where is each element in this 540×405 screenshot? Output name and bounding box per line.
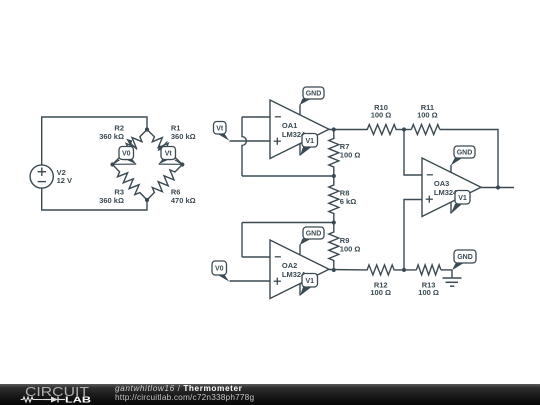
svg-text:V0: V0 — [215, 266, 224, 273]
wire V0 to OA2 non-inverting input — [230, 280, 271, 282]
wire R10 to R11 junction — [397, 129, 412, 131]
svg-text:100 Ω: 100 Ω — [370, 288, 391, 297]
resistor R9 100 ohm — [329, 223, 361, 271]
wire OA2 feedback vertical — [241, 223, 243, 258]
node flag V0 (OA2 input) — [212, 261, 229, 282]
svg-text:OA1: OA1 — [282, 121, 297, 130]
wire OA3 output — [480, 187, 514, 189]
wire OA1 inverting input — [242, 116, 270, 118]
wire V2 bottom to bridge bottom — [42, 188, 147, 210]
OA3 power stub top — [450, 165, 452, 173]
resistor R11 100 ohm (feedback) — [411, 103, 440, 135]
junction R12/R13 — [402, 268, 406, 272]
voltage source V2 — [30, 165, 72, 188]
junction R10/R11 — [402, 127, 406, 131]
svg-text:OA2: OA2 — [282, 261, 297, 270]
variable arrow on R2 — [126, 139, 137, 150]
svg-text:V0: V0 — [122, 151, 131, 158]
resistor R7 100 ohm — [329, 130, 361, 177]
node flag Vt (OA1 input) — [214, 122, 230, 141]
node flag Vt (bridge) — [158, 147, 182, 165]
V1 flag at OA2 — [300, 274, 318, 296]
op-amp OA3 LM324 — [422, 158, 481, 217]
svg-text:100 Ω: 100 Ω — [340, 245, 361, 254]
resistor R12 100 ohm — [367, 265, 394, 297]
junction OA3 output — [496, 185, 500, 189]
junction bridge top — [145, 127, 149, 131]
svg-text:100 Ω: 100 Ω — [371, 111, 392, 120]
footer bar — [0, 384, 540, 405]
logo diode — [51, 397, 58, 403]
junction R7/R8 feedback — [332, 174, 336, 178]
wire Vt to OA1 non-inverting input — [230, 140, 271, 142]
svg-text:V1: V1 — [458, 195, 467, 202]
svg-text:470 kΩ: 470 kΩ — [171, 196, 196, 205]
wire OA3 inverting input from R10/R11 junction — [404, 130, 422, 176]
resistor R3 360k (bottom-left bridge arm) — [99, 165, 147, 206]
node flag V0 (bridge) — [113, 147, 137, 165]
junction bridge right (node Vt) — [180, 162, 184, 166]
wire V2 top to bridge top — [42, 117, 147, 165]
svg-text:GND: GND — [306, 91, 322, 98]
resistor R6 470k (bottom-right bridge arm) — [147, 165, 196, 206]
svg-text:V1: V1 — [305, 278, 314, 285]
V1 flag at OA1 — [300, 134, 318, 156]
CircuitLab logo — [0, 384, 110, 405]
variable arrow on R1 — [158, 142, 168, 152]
OA2 power stub bottom — [299, 284, 301, 296]
resistor R1 360k (top-right bridge arm) — [147, 124, 196, 165]
wire OA2 inverting input — [242, 256, 270, 258]
wire R13 to ground — [441, 269, 452, 271]
op-amp OA1 LM324 — [270, 100, 329, 159]
svg-text:LAB: LAB — [65, 394, 91, 404]
GND flag at OA1 — [300, 87, 324, 105]
svg-text:GND: GND — [306, 231, 322, 238]
svg-text:OA3: OA3 — [434, 179, 449, 188]
svg-text:100 Ω: 100 Ω — [417, 111, 438, 120]
wire R11 to OA3 output — [440, 130, 498, 188]
V1 flag at OA3 — [451, 191, 470, 215]
wire OA1 feedback to R7/R8 junction — [242, 175, 334, 177]
svg-text:R1: R1 — [171, 124, 181, 133]
svg-text:100 Ω: 100 Ω — [418, 288, 439, 297]
svg-text:Vt: Vt — [216, 125, 224, 132]
GND flag at OA2 — [300, 227, 324, 245]
logo resistor — [21, 397, 43, 402]
svg-text:Vt: Vt — [165, 151, 173, 158]
wire OA2 feedback to R8/R9 junction — [242, 222, 334, 224]
resistor R2 360k (top-left bridge arm) — [99, 124, 147, 165]
wire OA1 feedback vertical (with hop) — [242, 117, 246, 176]
junction bridge bottom — [145, 198, 149, 202]
GND flag at R13 — [452, 250, 476, 270]
svg-text:R2: R2 — [114, 124, 124, 133]
wire OA1 output — [329, 129, 367, 131]
OA1 power stub bottom — [299, 144, 301, 156]
svg-text:12 V: 12 V — [57, 176, 72, 185]
svg-text:100 Ω: 100 Ω — [340, 151, 361, 160]
ground symbol — [443, 270, 462, 286]
op-amp OA2 LM324 — [270, 240, 329, 299]
resistor R13 100 ohm — [416, 265, 441, 297]
resistor R8 6k — [329, 176, 356, 223]
wire R12 to R13 — [394, 269, 416, 271]
wire OA3 non-inverting input from R12/R13 junction — [404, 200, 422, 270]
svg-text:GND: GND — [457, 150, 473, 157]
junction OA1 output / R7 — [332, 127, 336, 131]
svg-text:GND: GND — [457, 254, 473, 261]
OA1 power stub top — [299, 105, 301, 116]
svg-text:360 kΩ: 360 kΩ — [99, 132, 124, 141]
OA2 power stub top — [299, 245, 301, 256]
svg-text:360 kΩ: 360 kΩ — [99, 196, 124, 205]
svg-text:6 kΩ: 6 kΩ — [340, 197, 356, 206]
OA3 power stub bottom — [450, 202, 452, 213]
svg-text:V1: V1 — [305, 138, 314, 145]
GND flag at OA3 — [451, 146, 475, 166]
svg-text:360 kΩ: 360 kΩ — [171, 132, 196, 141]
resistor R10 100 ohm — [367, 103, 397, 135]
junction OA2 output / R9 — [332, 268, 336, 272]
junction bridge left (node V0) — [110, 162, 114, 166]
wire OA2 output — [329, 269, 367, 271]
junction R8/R9 feedback — [332, 220, 336, 224]
